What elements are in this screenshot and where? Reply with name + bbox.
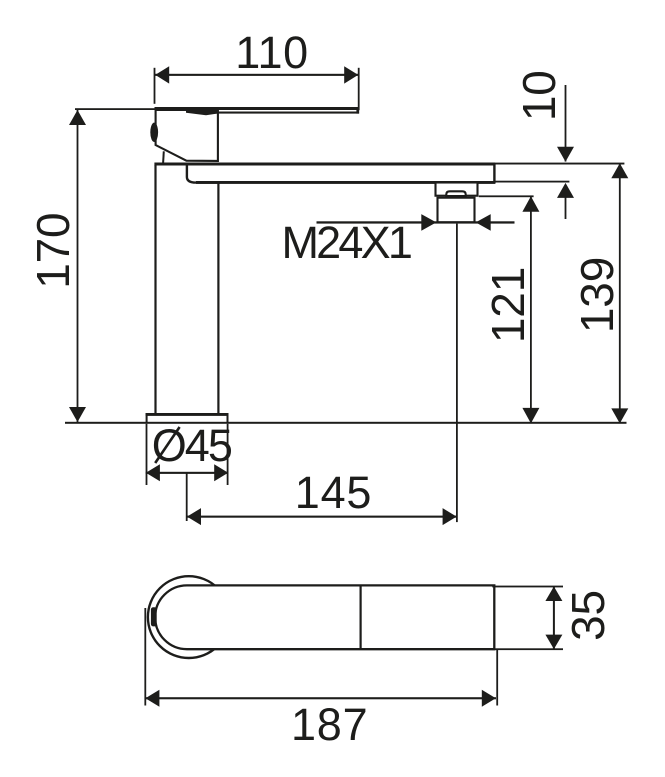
dim 10 label (rotated) [513, 70, 565, 121]
dim 139 line [619, 163, 621, 423]
dim 110 extension line right [358, 68, 360, 111]
flange extension line left (dim 45) [146, 424, 148, 485]
dim 45 arrow left [146, 464, 160, 481]
dim 187 extension line left [144, 608, 146, 706]
dim 139 arrow bottom [611, 408, 628, 423]
dim 187 extension line right [496, 650, 498, 706]
dim 121 line [530, 196, 532, 423]
dim 35 label (rotated) [562, 590, 614, 641]
dim 110 line [155, 74, 359, 76]
handle pivot cap [150, 123, 158, 142]
faucet handle lever [155, 107, 360, 115]
spout bottom extension line (for dim 10) [495, 181, 569, 183]
dim 110 label [235, 27, 309, 78]
column axis line [186, 473, 188, 521]
dim M24X1 arrow left [421, 214, 436, 231]
dim 35 arrow top [545, 587, 562, 602]
base flange [146, 413, 229, 423]
dim 187 line [145, 697, 496, 699]
dim 35 extension line bottom [492, 648, 563, 650]
spout right end [493, 163, 495, 184]
dim 10 upper line [565, 85, 567, 162]
flange extension line right (dim 45) [227, 424, 229, 485]
svg-text:170: 170 [27, 213, 79, 289]
dim 145 arrow left [187, 508, 201, 525]
dim 139 label (rotated) [571, 257, 623, 333]
dim M24X1 label [282, 217, 411, 268]
spout top edge [154, 163, 495, 166]
dim 35 arrow bottom [545, 635, 562, 650]
spout top extension line (for dims 10/139) [495, 163, 624, 165]
svg-text:139: 139 [571, 257, 623, 333]
dim 10 arrow upper [557, 147, 574, 162]
dim 45 line [146, 472, 229, 474]
dim 110 arrow left [155, 66, 169, 83]
dim M24X1 leader line [317, 221, 515, 223]
dim 10 arrow lower [557, 183, 574, 198]
dim 187 arrow right [482, 690, 496, 707]
dim 35 line [553, 586, 555, 649]
dim 121 extension line [479, 195, 534, 197]
spout divider line (top view) [360, 587, 362, 649]
spout bottom edge [196, 181, 495, 184]
svg-text:35: 35 [562, 590, 614, 641]
dim 45 arrow right [214, 464, 228, 481]
aerator axis line [456, 224, 458, 522]
svg-text:O45: O45 [152, 420, 232, 471]
dim 170 arrow bottom [69, 407, 86, 422]
thread body M24 [438, 198, 475, 223]
faucet column left edge [154, 165, 156, 413]
spout seam mark (top view) [151, 607, 157, 626]
spout underside left joint [187, 165, 220, 183]
dim 121 arrow bottom [522, 408, 539, 424]
aerator insert bump [446, 191, 465, 196]
cover seam line [162, 151, 165, 163]
dim 187 arrow left [145, 690, 159, 707]
dim 121 arrow top [522, 196, 539, 212]
dim 145 arrow right [443, 508, 457, 525]
svg-text:121: 121 [482, 267, 534, 343]
dim M24X1 arrow right [476, 214, 491, 231]
cartridge cover body [156, 110, 218, 161]
mounting surface line [65, 422, 627, 424]
faucet column right edge [217, 183, 219, 413]
dim 139 arrow top [611, 163, 628, 178]
dim 145 line [187, 516, 457, 518]
svg-text:187: 187 [291, 699, 368, 750]
dim 170 arrow top [69, 110, 86, 125]
dim 187 label [291, 699, 368, 750]
svg-text:145: 145 [295, 467, 372, 518]
svg-text:110: 110 [235, 27, 309, 78]
spout body top view (rounded) [155, 585, 494, 649]
dim 170 extension line top [75, 108, 155, 110]
base flange circle (top view) [148, 576, 230, 658]
dim 145 label [295, 467, 372, 518]
dim 170 line [77, 110, 79, 422]
dim 35 extension line top [492, 586, 563, 588]
dim 45 label [152, 420, 232, 471]
svg-text:M24X1: M24X1 [282, 217, 411, 268]
dim 10 lower line [565, 196, 567, 219]
svg-text:10: 10 [513, 70, 565, 121]
dim 170 label (rotated) [27, 213, 79, 289]
dim 121 label (rotated) [482, 267, 534, 343]
aerator housing [436, 183, 478, 196]
dim 110 extension line left [154, 68, 156, 104]
dim 110 arrow right [344, 66, 358, 83]
